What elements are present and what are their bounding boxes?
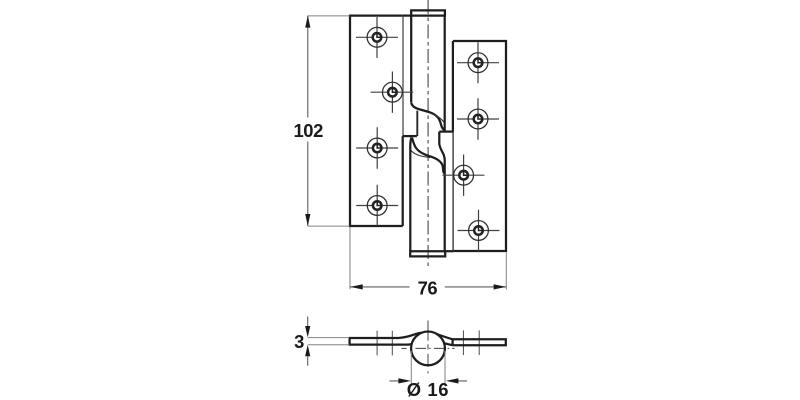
dimension d16 extension lines — [411, 351, 445, 383]
pin core left edge — [416, 111, 418, 137]
section view centerline — [427, 321, 429, 374]
dimension 3 arrow lines — [307, 317, 309, 366]
dimension 76 extension lines — [350, 227, 506, 290]
dimension d16 arrow lines — [390, 380, 468, 382]
svg-text:Ø 16: Ø 16 — [407, 379, 449, 400]
upper spiral cam edge — [411, 103, 444, 130]
section left plate — [350, 333, 422, 345]
screw hole H1 — [356, 17, 398, 58]
upper knuckle left edge — [410, 16, 412, 103]
leaf top edge extension to knuckle — [403, 14, 412, 16]
section knuckle crosshair — [402, 347, 455, 349]
lower knuckle right shoulder — [439, 132, 444, 251]
svg-text:3: 3 — [294, 331, 304, 352]
upper knuckle right edge — [444, 16, 446, 132]
section right plate — [437, 334, 506, 345]
left ledge — [403, 135, 417, 137]
right leaf — [453, 41, 506, 251]
svg-text:102: 102 — [293, 120, 323, 141]
section knuckle circle — [411, 332, 445, 366]
lower knuckle bottom cap — [410, 251, 445, 256]
dimension 102 extension lines — [308, 16, 350, 226]
upper knuckle top cap — [411, 10, 445, 15]
dimension d16 arrows — [398, 378, 458, 383]
section right plate lower neck — [444, 343, 453, 345]
section left plate hole marks — [377, 331, 392, 356]
dimension 76 line — [350, 286, 506, 288]
svg-text:76: 76 — [418, 277, 438, 298]
left leaf — [350, 16, 403, 226]
screw hole H3 — [356, 127, 398, 168]
dimension 102 line — [307, 16, 309, 226]
screw hole H5 — [457, 42, 499, 83]
lower spiral underside — [411, 150, 430, 157]
screw hole H6 — [457, 98, 499, 139]
screw hole H7 — [442, 155, 484, 196]
lower spiral cam edge — [412, 138, 445, 174]
centerline pivot axis (top view) — [427, 0, 429, 266]
left leaf fold edge upper — [402, 16, 404, 137]
section right plate hole marks — [463, 330, 479, 355]
lower knuckle left edge — [409, 145, 411, 251]
screw hole H8 — [458, 210, 500, 251]
right ledge — [439, 130, 453, 132]
screw hole H4 — [356, 185, 398, 226]
dimension 3 extension lines — [308, 338, 350, 345]
right leaf free edge upper — [452, 41, 454, 132]
right leaf fold edge lower — [452, 132, 454, 251]
upper spiral underside — [431, 114, 445, 123]
dimension 3 arrows — [305, 326, 310, 356]
dimension 102 arrows — [305, 16, 310, 226]
dimension 76 arrows — [350, 284, 506, 289]
left leaf free edge lower — [402, 136, 404, 226]
cap to right leaf junction line — [445, 250, 453, 252]
lower knuckle left corner — [410, 137, 411, 145]
screw hole H2 — [371, 72, 414, 113]
